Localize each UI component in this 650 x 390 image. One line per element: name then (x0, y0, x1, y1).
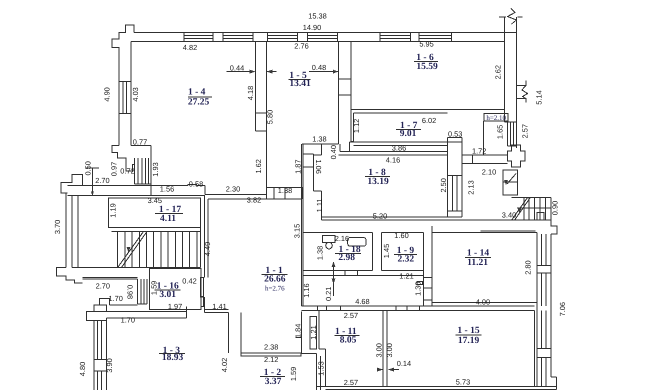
svg-text:15.59: 15.59 (416, 62, 438, 72)
window sill breaks right wall (537, 264, 551, 266)
wall 0.53 pair right of room 1-7 (447, 137, 449, 217)
stair tread top line (111, 231, 200, 233)
right stair diagonals (512, 197, 528, 220)
svg-text:0.40: 0.40 (329, 145, 338, 159)
dim 2.70 arrow near stair hall (92, 168, 94, 195)
svg-text:9.01: 9.01 (400, 129, 417, 139)
svg-text:1.70: 1.70 (121, 316, 135, 325)
wall: room 1-11 left (318, 311, 320, 350)
svg-text:3.15: 3.15 (292, 224, 301, 238)
right stair notch (537, 213, 544, 221)
svg-text:4.11: 4.11 (160, 214, 176, 224)
wall: stair hall bottom band (72, 266, 150, 268)
svg-text:8.05: 8.05 (340, 336, 357, 346)
svg-text:26.66: 26.66 (264, 275, 286, 285)
svg-text:1.45: 1.45 (382, 244, 391, 258)
wall: stair hall top bottom line (67, 194, 205, 196)
wall: right of niche jog (301, 312, 303, 354)
wall: exterior top outer line (134, 31, 517, 33)
svg-text:2.70: 2.70 (95, 176, 109, 185)
svg-text:0.44: 0.44 (230, 63, 244, 72)
svg-text:2.50: 2.50 (439, 178, 448, 192)
lobby top line 0.77 (131, 144, 151, 146)
vestibule notch 1.70 (100, 298, 110, 305)
toilet in 1-18 (323, 236, 336, 243)
svg-text:2.76: 2.76 (294, 42, 308, 51)
svg-text:2.32: 2.32 (397, 254, 414, 264)
stair bottom line (78, 266, 200, 268)
window in right wall below 1-6 (506, 122, 508, 146)
door opening 2.30 threshold (205, 193, 267, 195)
svg-text:6.02: 6.02 (422, 116, 436, 125)
stair hall right wall (199, 198, 201, 268)
svg-text:3.01: 3.01 (159, 290, 176, 300)
room 1-16 box (150, 269, 201, 310)
svg-text:1.38: 1.38 (278, 186, 292, 195)
svg-text:2.38: 2.38 (264, 342, 278, 351)
svg-text:13.19: 13.19 (367, 177, 389, 187)
svg-text:5.20: 5.20 (373, 211, 387, 220)
tick at 1.16 wall (296, 337, 302, 339)
svg-text:0.21: 0.21 (324, 287, 333, 301)
wall: stepped corner below room 1-4 (112, 145, 126, 164)
under-stair nook with arrow (503, 170, 517, 195)
wall: room 1-6 left pair (338, 42, 340, 144)
h=2.10 box (484, 114, 508, 122)
dim tick 5.80 on divider (255, 112, 266, 114)
window 0.77 (134, 158, 136, 184)
svg-text:5.80: 5.80 (265, 110, 274, 124)
svg-text:3.90: 3.90 (105, 358, 114, 372)
svg-text:2.57: 2.57 (344, 311, 358, 320)
svg-text:3.45: 3.45 (148, 196, 162, 205)
right stair right edge (550, 197, 552, 226)
window band: top wall windows (184, 34, 213, 36)
svg-text:1.19: 1.19 (109, 203, 118, 217)
wall: 1.41 segment (204, 308, 228, 310)
svg-text:h=2.76: h=2.76 (265, 285, 285, 293)
break symbol top (499, 16, 506, 18)
svg-text:1.11: 1.11 (315, 198, 324, 212)
window wall right side 2.80/7.06 (536, 234, 538, 386)
svg-text:3.40: 3.40 (502, 211, 516, 220)
vestibule top line 2.70 (83, 278, 138, 280)
window 2.50 (451, 176, 453, 211)
wall: room 1-8 left (314, 190, 322, 192)
svg-text:2.16: 2.16 (335, 234, 349, 243)
svg-text:4.00: 4.00 (476, 297, 490, 306)
wall: 5.20 bottom of room 1-8 (322, 216, 462, 218)
pilaster 1.21 in room 1-2 area (310, 317, 317, 350)
svg-text:1.38: 1.38 (316, 246, 325, 260)
svg-text:3.00: 3.00 (374, 343, 383, 357)
svg-text:1.97: 1.97 (168, 302, 182, 311)
svg-text:0.72: 0.72 (120, 166, 134, 175)
svg-text:7.06: 7.06 (558, 302, 567, 316)
door leaf dark between 1-16 and 1-1 (201, 278, 204, 297)
shaft notch 0.40 (320, 144, 322, 155)
room 1-18 box (303, 232, 373, 234)
svg-text:1.87: 1.87 (293, 160, 302, 174)
svg-text:1.60: 1.60 (394, 231, 408, 240)
wall: right exterior pair (504, 17, 506, 109)
wall: corridor bottom 4.68/4.00 (302, 305, 535, 307)
stair break diagonals (118, 232, 144, 268)
svg-text:3.37: 3.37 (265, 377, 282, 387)
svg-text:4.90: 4.90 (103, 87, 112, 101)
door leaf dark 1.97 (201, 296, 204, 306)
room 1-9 box (381, 232, 423, 234)
svg-text:1.65: 1.65 (495, 125, 504, 139)
door leaf dark in corridor (417, 282, 423, 285)
wall: room 1-1 left pair (204, 195, 206, 277)
window 4.90 in left wall (119, 81, 131, 83)
wall: exterior top inner line (131, 41, 504, 43)
svg-text:4.18: 4.18 (246, 86, 255, 100)
svg-text:2.10: 2.10 (482, 167, 496, 176)
svg-text:1.93: 1.93 (151, 162, 160, 176)
wall pair between 1-11 and 1-15 (382, 311, 384, 387)
svg-text:3.86: 3.86 (392, 143, 406, 152)
pilaster top-left of room 1-3 (94, 305, 107, 311)
wall: stair hall left exterior (65, 193, 67, 268)
svg-text:0.42: 0.42 (182, 277, 196, 286)
wall: left exterior of room 1-4 (118, 48, 120, 146)
room 1-1 top inner line (208, 198, 302, 200)
svg-text:2.57: 2.57 (344, 378, 358, 387)
svg-text:13.41: 13.41 (289, 79, 311, 89)
svg-text:5.73: 5.73 (456, 377, 470, 386)
door 1.97 jamb (203, 306, 205, 312)
svg-text:1.16: 1.16 (302, 283, 311, 297)
svg-text:2.98: 2.98 (338, 253, 355, 263)
svg-text:1.59: 1.59 (289, 367, 298, 381)
pilaster right end (551, 220, 557, 234)
svg-text:11.21: 11.21 (467, 258, 488, 268)
svg-text:1.72: 1.72 (472, 147, 486, 156)
svg-text:1.12: 1.12 (352, 119, 361, 133)
stair treads (117, 232, 119, 268)
bottom-right corner (551, 376, 557, 378)
lintel 2.12 thick (241, 353, 301, 356)
shaft inner wall 1.87/1.06 (303, 153, 314, 155)
pilaster top-left of stair hall (61, 175, 82, 194)
wall: room 1-1 left lower (203, 297, 205, 310)
svg-text:3.82: 3.82 (247, 196, 261, 205)
svg-text:27.25: 27.25 (188, 97, 210, 107)
svg-text:4.80: 4.80 (78, 362, 87, 376)
svg-text:1.84: 1.84 (293, 324, 302, 338)
door ticks corridor bottom wall (317, 306, 319, 311)
svg-text:1.06: 1.06 (314, 160, 323, 174)
room 1-15 right edge (533, 311, 535, 387)
svg-text:2.12: 2.12 (264, 355, 278, 364)
room 1-7 box (353, 112, 447, 114)
ticks on 1-6 left wall (339, 78, 351, 80)
svg-text:0.48: 0.48 (312, 63, 326, 72)
svg-text:2.80: 2.80 (524, 260, 533, 274)
wall: shaft top line 1.38 (302, 143, 339, 145)
svg-text:3.70: 3.70 (53, 220, 62, 234)
svg-text:0.98: 0.98 (126, 285, 135, 299)
svg-text:1.56: 1.56 (160, 185, 174, 194)
svg-text:2.30: 2.30 (226, 185, 240, 194)
passage lines 1.72 (462, 154, 508, 156)
svg-text:4.02: 4.02 (220, 358, 229, 372)
svg-text:4.49: 4.49 (203, 242, 212, 256)
svg-text:4.82: 4.82 (183, 43, 197, 52)
wall: bottom exterior (317, 386, 557, 388)
svg-text:1.21: 1.21 (399, 271, 413, 280)
svg-text:1.21: 1.21 (309, 325, 318, 339)
wall bump 0.58 (188, 184, 197, 185)
svg-text:4.68: 4.68 (355, 297, 369, 306)
svg-text:5.14: 5.14 (534, 90, 543, 104)
wall: room 1-3 top band (94, 311, 187, 313)
door arrow room 1-18 / dim 0.21 (333, 262, 335, 296)
dim 0.48 arrows (267, 71, 277, 73)
svg-text:15.38: 15.38 (308, 12, 327, 21)
dim 0.14 arrows (377, 369, 383, 371)
svg-text:0.14: 0.14 (397, 359, 411, 368)
room 1-17 box (109, 198, 201, 228)
svg-text:1.38: 1.38 (312, 134, 326, 143)
svg-text:0.50: 0.50 (83, 161, 92, 175)
svg-text:1.53: 1.53 (316, 361, 325, 375)
wall: exterior top-left corner with pilaster bumps (112, 25, 134, 81)
break symbol right 5.14 (517, 85, 527, 87)
room 1-6 bottom line (351, 108, 504, 110)
svg-text:1 - 4: 1 - 4 (188, 87, 206, 97)
window mullions on top wall (183, 32, 185, 41)
wall: left exterior window of room 1-3 (93, 320, 95, 390)
svg-text:18.93: 18.93 (162, 353, 184, 363)
svg-text:5.95: 5.95 (419, 40, 433, 49)
svg-text:h=2.10: h=2.10 (486, 114, 506, 122)
svg-text:0.97: 0.97 (110, 162, 119, 176)
wall: lobby right line (150, 145, 152, 195)
wall 4.16 below room 1-7 (340, 151, 448, 153)
stair direction arrow (130, 234, 143, 252)
wall: corridor-1-14 shaft (423, 270, 425, 305)
svg-text:4.16: 4.16 (386, 156, 400, 165)
pilaster bottom-left of stair hall (57, 268, 83, 283)
window sill break room 1-3 (94, 359, 107, 361)
wall: room 1-1 bottom / niche 2.38 (228, 313, 230, 353)
svg-text:1.62: 1.62 (254, 159, 263, 173)
svg-text:3.00: 3.00 (385, 343, 394, 357)
wall: divider between rooms 1-4 and 1-5 (254, 42, 256, 131)
svg-text:4.03: 4.03 (131, 87, 140, 101)
sink in 1-18 (348, 238, 366, 247)
room 1-14 box (432, 232, 537, 234)
svg-text:0.90: 0.90 (550, 201, 559, 215)
svg-text:1.41: 1.41 (212, 302, 226, 311)
svg-text:1.70: 1.70 (109, 294, 123, 303)
window 0.98 vestibule (137, 279, 139, 304)
svg-text:0.77: 0.77 (133, 138, 147, 147)
wall: stair hall top, left segment (67, 185, 188, 187)
dim 0.44 arrow (227, 71, 255, 73)
svg-text:2.70: 2.70 (96, 281, 110, 290)
right stair treads (512, 196, 551, 198)
svg-text:2.62: 2.62 (494, 65, 503, 79)
svg-text:2.57: 2.57 (521, 124, 530, 138)
cross pilaster chimney (508, 145, 526, 167)
svg-text:17.19: 17.19 (458, 336, 480, 346)
svg-text:0.53: 0.53 (448, 130, 462, 139)
svg-text:2.13: 2.13 (467, 180, 476, 194)
svg-text:14.90: 14.90 (303, 23, 322, 32)
svg-text:0.58: 0.58 (189, 179, 203, 188)
wall pier 1.38 (267, 187, 303, 189)
wall: room 1-1/1-5 right wall pair (301, 144, 303, 306)
wall below 1-18/1-9 (303, 275, 423, 277)
svg-text:1.30: 1.30 (414, 282, 423, 296)
